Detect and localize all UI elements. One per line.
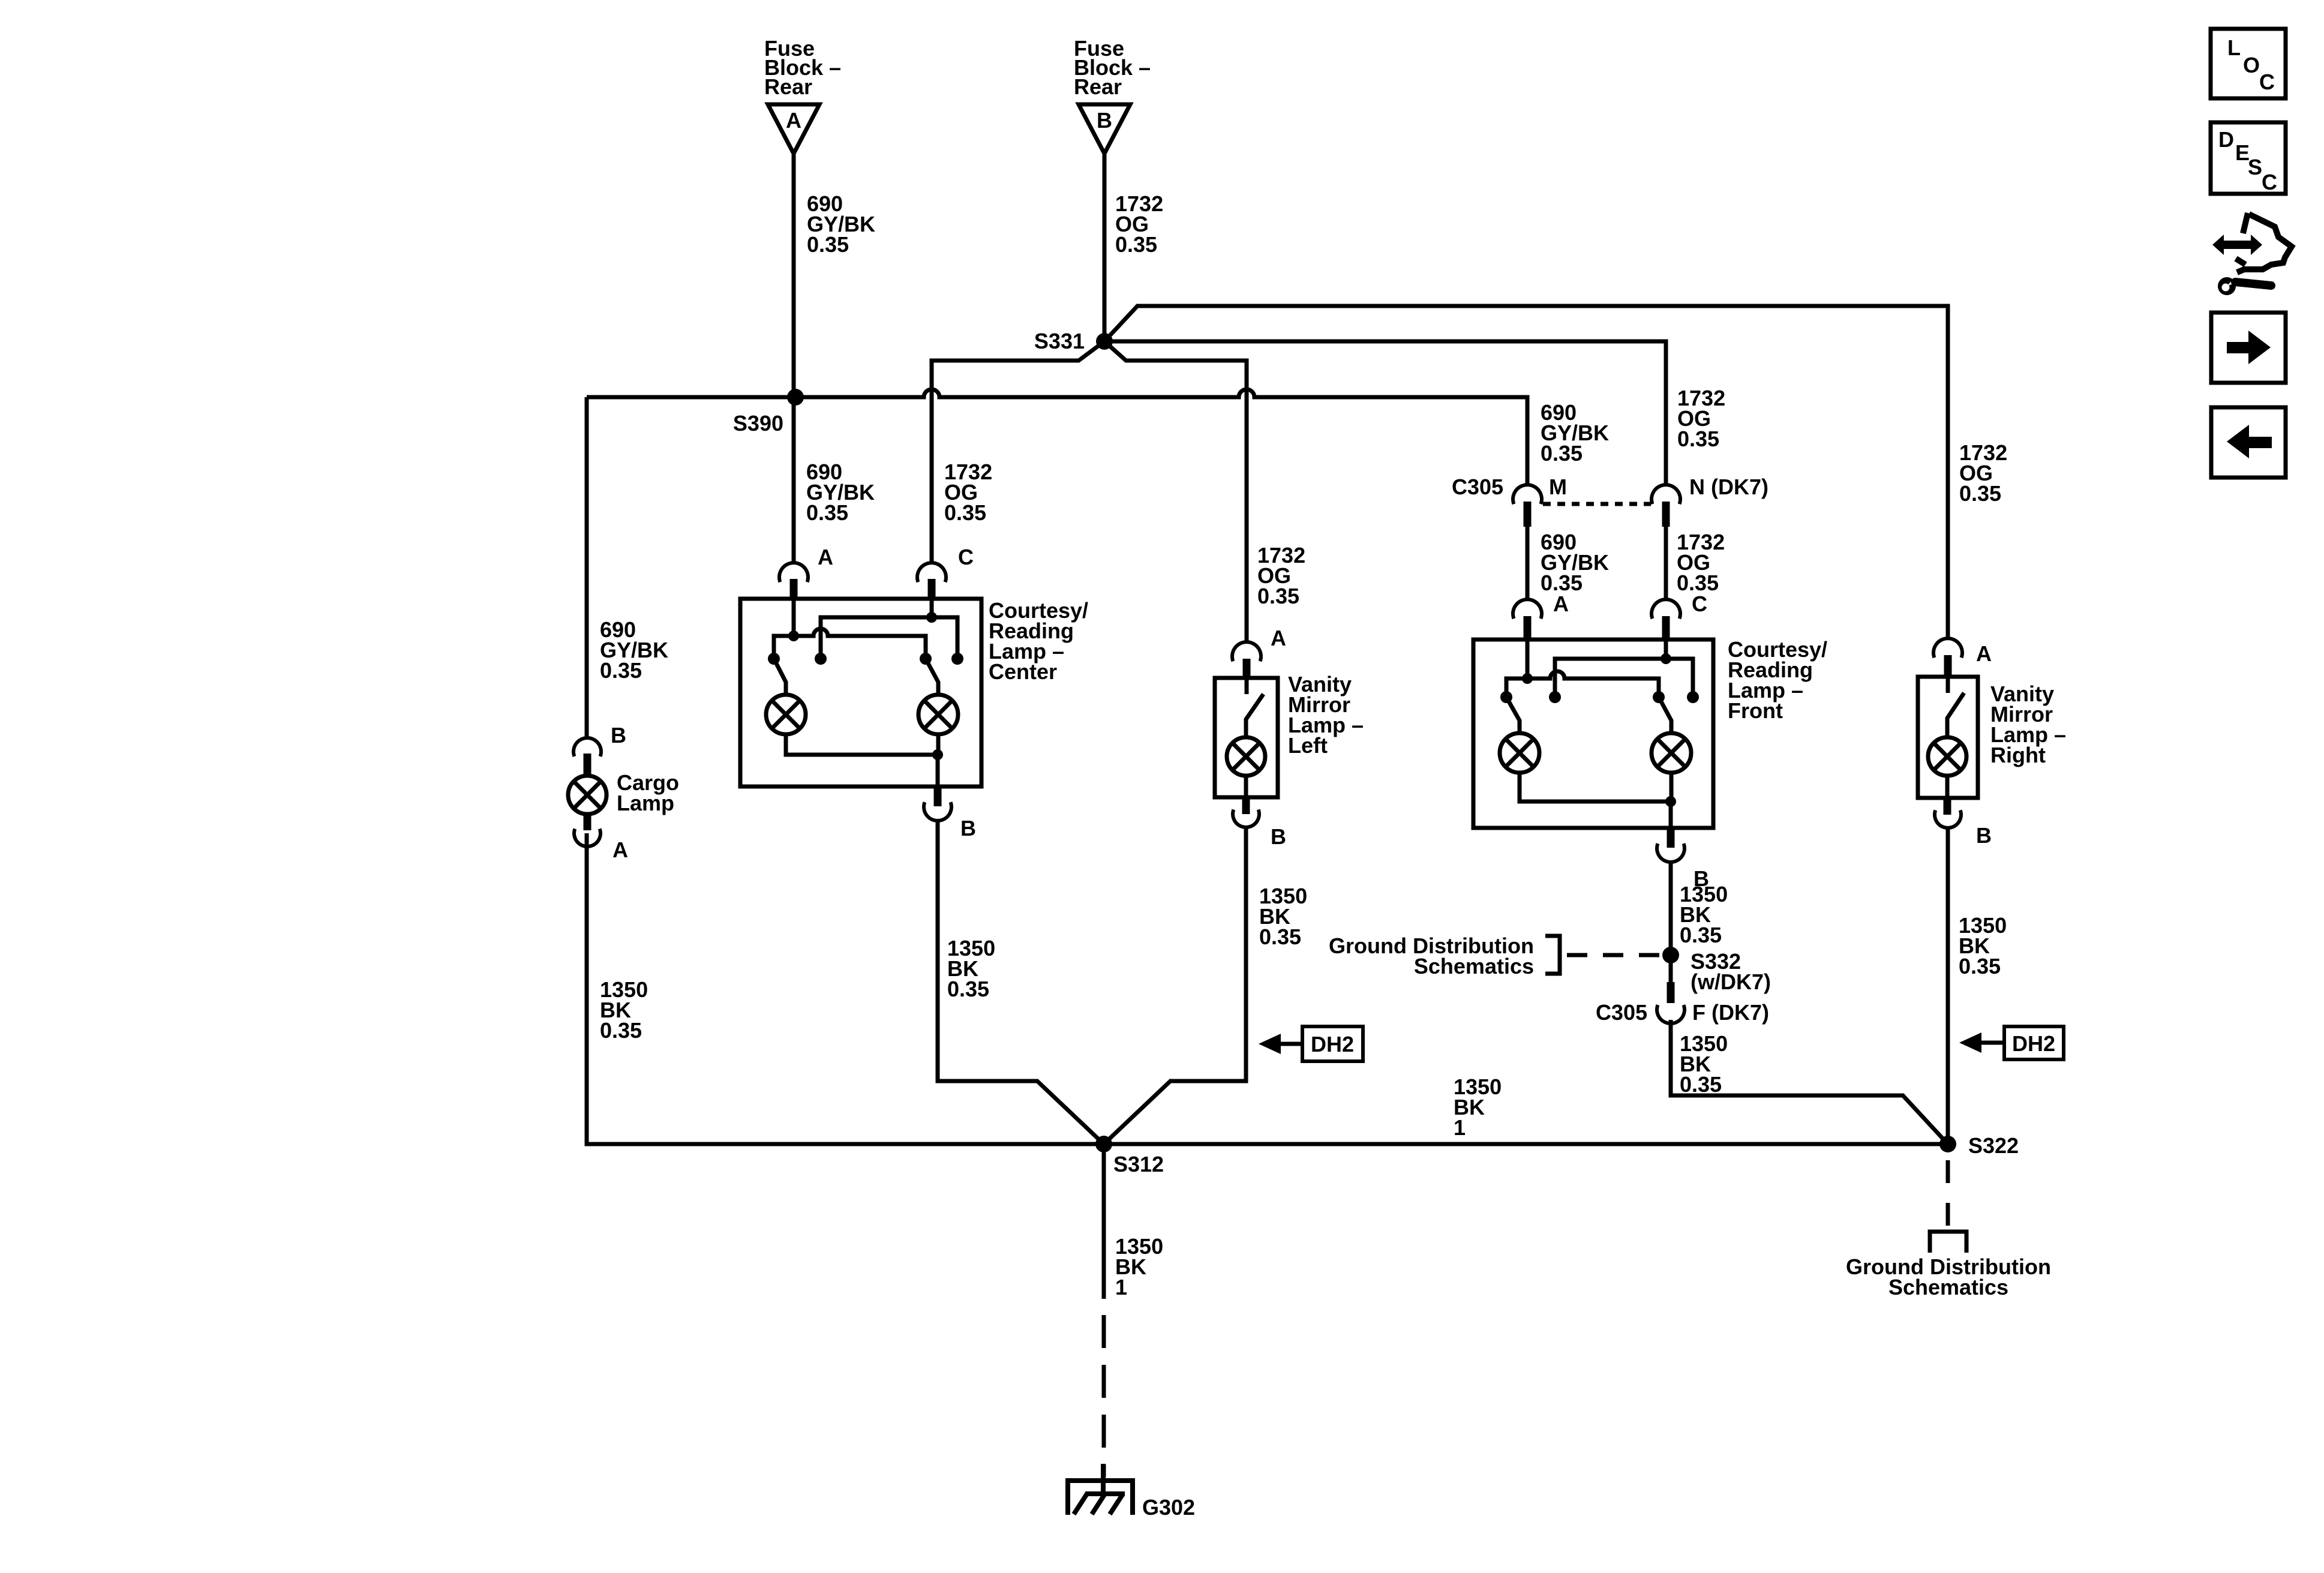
svg-text:C: C <box>2259 70 2275 94</box>
svg-text:0.35: 0.35 <box>1115 232 1157 257</box>
svg-text:B: B <box>1976 823 1992 848</box>
svg-text:S312: S312 <box>1113 1152 1164 1176</box>
svg-text:A: A <box>612 837 628 862</box>
svg-text:Lamp: Lamp <box>617 791 674 815</box>
svg-text:C: C <box>958 545 974 569</box>
svg-text:0.35: 0.35 <box>1677 427 1719 451</box>
svg-text:G302: G302 <box>1142 1495 1195 1520</box>
svg-text:C: C <box>1692 592 1707 616</box>
svg-text:L: L <box>2227 35 2241 60</box>
svg-text:DH2: DH2 <box>2012 1031 2055 1056</box>
svg-text:Rear: Rear <box>1074 74 1122 99</box>
svg-text:B: B <box>960 816 976 840</box>
svg-text:S331: S331 <box>1034 329 1085 353</box>
svg-text:S390: S390 <box>733 411 783 436</box>
svg-text:C305: C305 <box>1452 475 1503 499</box>
svg-text:(w/DK7): (w/DK7) <box>1691 969 1771 994</box>
svg-text:B: B <box>1097 108 1112 133</box>
svg-text:Center: Center <box>989 659 1057 684</box>
svg-text:0.35: 0.35 <box>1680 1072 1722 1097</box>
svg-text:M: M <box>1549 475 1567 499</box>
svg-text:F (DK7): F (DK7) <box>1692 1000 1769 1025</box>
svg-text:0.35: 0.35 <box>1959 481 2001 506</box>
svg-text:0.35: 0.35 <box>1259 924 1301 949</box>
svg-text:1: 1 <box>1454 1115 1466 1140</box>
svg-text:A: A <box>1553 592 1569 616</box>
svg-text:DH2: DH2 <box>1311 1032 1354 1056</box>
svg-text:O: O <box>2243 53 2260 77</box>
svg-text:0.35: 0.35 <box>1541 441 1583 466</box>
svg-text:1: 1 <box>1115 1275 1127 1299</box>
svg-text:0.35: 0.35 <box>944 500 986 525</box>
svg-text:0.35: 0.35 <box>1257 584 1299 608</box>
svg-text:0.35: 0.35 <box>1959 954 2001 978</box>
svg-text:Schematics: Schematics <box>1888 1275 2008 1299</box>
svg-text:S: S <box>2248 155 2262 179</box>
svg-text:Rear: Rear <box>764 74 812 99</box>
svg-text:0.35: 0.35 <box>1680 923 1722 947</box>
svg-text:B: B <box>1271 824 1286 849</box>
svg-text:0.35: 0.35 <box>807 232 849 257</box>
svg-text:S322: S322 <box>1968 1133 2019 1158</box>
svg-text:Right: Right <box>1990 743 2046 767</box>
svg-text:A: A <box>1271 626 1286 650</box>
svg-text:N (DK7): N (DK7) <box>1689 475 1768 499</box>
svg-text:A: A <box>1976 641 1992 666</box>
svg-text:D: D <box>2218 127 2234 152</box>
svg-text:Front: Front <box>1728 698 1783 723</box>
svg-text:A: A <box>818 545 833 569</box>
svg-text:0.35: 0.35 <box>600 658 642 683</box>
svg-text:C: C <box>2262 170 2277 194</box>
svg-text:Left: Left <box>1288 733 1328 758</box>
svg-text:C305: C305 <box>1596 1000 1647 1025</box>
svg-text:0.35: 0.35 <box>947 977 989 1001</box>
svg-text:A: A <box>786 108 801 133</box>
svg-text:0.35: 0.35 <box>600 1018 642 1043</box>
svg-text:B: B <box>611 723 626 748</box>
svg-text:Schematics: Schematics <box>1414 954 1534 978</box>
svg-text:0.35: 0.35 <box>806 500 848 525</box>
